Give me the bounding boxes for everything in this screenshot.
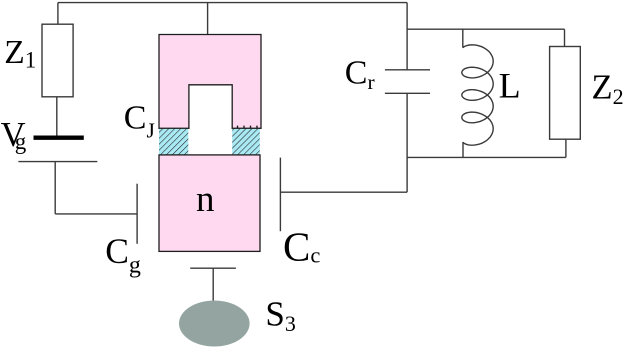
battery Vg thin plate	[18, 161, 97, 163]
wire to Cg	[55, 213, 137, 215]
wire Z2 top drop	[564, 29, 566, 46]
wire island top drop	[207, 3, 209, 35]
svg-text:g: g	[15, 129, 27, 154]
impedance Z2	[550, 47, 581, 140]
svg-text:Z2: Z2	[592, 68, 624, 109]
wire Z1 top drop	[57, 3, 59, 25]
battery Vg thick plate	[34, 135, 84, 139]
wire inductor bottom stub	[462, 142, 464, 158]
capacitor Cr top plate	[385, 69, 430, 71]
wire tank left vertical upper	[406, 3, 408, 70]
wire Z1 to battery	[56, 97, 58, 136]
capacitor Cc plate	[279, 158, 281, 232]
substrate electrode S3	[179, 301, 250, 347]
capacitor S3 plate	[190, 267, 236, 269]
wire tank bottom	[407, 156, 566, 158]
wire plate to S3	[212, 268, 214, 302]
impedance Z1	[42, 24, 73, 97]
svg-text:Cg: Cg	[105, 231, 141, 278]
junction edge ticks	[238, 126, 258, 129]
capacitor Cr bottom plate	[385, 92, 430, 94]
svg-text:n: n	[196, 179, 215, 220]
junction hatch right	[232, 129, 260, 155]
svg-text:Z1: Z1	[4, 34, 36, 73]
wire Z2 bottom drop	[565, 139, 567, 157]
wire top bus	[58, 2, 407, 4]
n region	[159, 155, 260, 252]
wire battery down	[54, 162, 56, 214]
wire inductor top stub	[462, 29, 464, 48]
svg-text:S3: S3	[265, 294, 295, 336]
junction hatch left	[159, 129, 188, 155]
wire tank top	[407, 28, 564, 30]
svg-text:L: L	[499, 66, 521, 106]
SET island top electrode	[159, 35, 261, 129]
inductor L coil	[462, 45, 493, 145]
svg-text:Cr: Cr	[345, 55, 375, 94]
svg-text:Cc: Cc	[283, 223, 320, 269]
wire Cc to tank	[280, 191, 407, 193]
capacitor Cg plate	[136, 184, 138, 244]
wire tank left vertical lower	[406, 93, 408, 192]
svg-text:CJ: CJ	[124, 99, 155, 142]
